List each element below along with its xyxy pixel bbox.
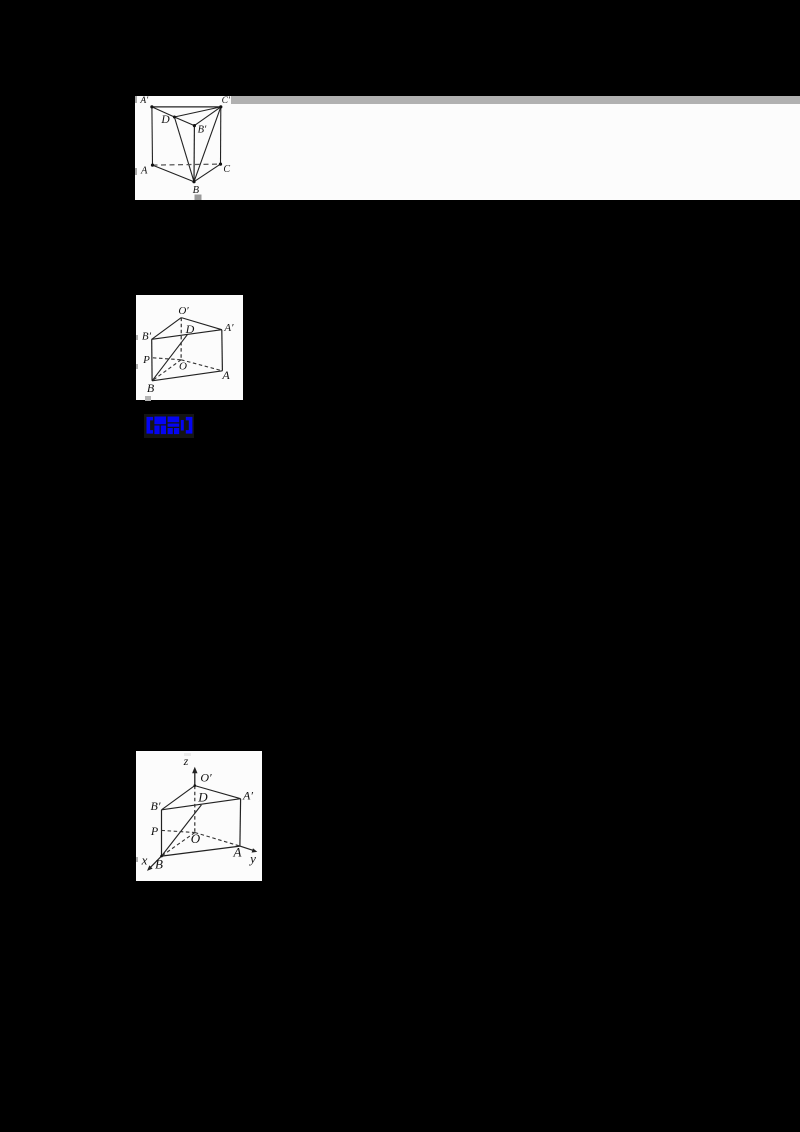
wire B-D xyxy=(162,805,202,856)
figure 1: triangular prism ABC-A'B'C' xyxy=(135,95,240,201)
wire A-C dashed xyxy=(153,164,221,165)
wire A'-A xyxy=(220,330,223,371)
wire B-B' xyxy=(193,126,195,182)
svg-text:P: P xyxy=(142,354,150,366)
svg-text:B: B xyxy=(193,185,200,196)
svg-text:x: x xyxy=(141,853,148,868)
wire B'-C' xyxy=(194,107,220,126)
node C' xyxy=(219,105,222,108)
wire B-A xyxy=(152,371,222,381)
svg-text:C′: C′ xyxy=(222,96,231,106)
wire P-O dashed xyxy=(162,830,195,832)
svg-text:A′: A′ xyxy=(223,322,234,334)
wire C-B xyxy=(194,164,221,182)
wire D-B xyxy=(174,117,194,182)
wire O'-O dashed xyxy=(180,318,182,360)
svg-text:B′: B′ xyxy=(198,125,207,136)
wire D-C' xyxy=(174,107,220,117)
wire B-D xyxy=(152,335,187,381)
wire C-C' xyxy=(220,107,222,164)
wire B'-A' xyxy=(162,799,241,810)
blue answer text xyxy=(146,416,194,437)
svg-text:D: D xyxy=(160,114,170,126)
wire B'-A' xyxy=(151,330,221,340)
artifact below B xyxy=(195,195,202,201)
answer tag backdrop xyxy=(144,414,194,438)
node A' xyxy=(150,105,153,108)
wire O'-A' xyxy=(195,786,241,799)
wire P-O dashed xyxy=(153,358,181,360)
svg-text:B′: B′ xyxy=(151,799,161,813)
node B xyxy=(192,180,195,183)
wire B'-O' xyxy=(162,786,195,810)
artifact tick left edge fig2 lower xyxy=(136,364,138,369)
svg-text:B′: B′ xyxy=(142,331,152,343)
white band row 1 xyxy=(135,96,800,200)
gray strip top of band xyxy=(231,96,800,104)
artifact tick left edge fig2 upper xyxy=(136,335,138,340)
x axis from B xyxy=(151,856,162,867)
svg-text:D: D xyxy=(197,790,208,805)
node B' xyxy=(193,124,196,127)
wire A-B xyxy=(153,165,195,182)
svg-text:A′: A′ xyxy=(139,96,149,106)
svg-text:A: A xyxy=(140,166,148,177)
artifact tick left edge fig3 xyxy=(136,857,138,862)
svg-text:A′: A′ xyxy=(242,789,253,803)
svg-text:A: A xyxy=(233,845,242,860)
figure 2: prism OBA-O'B'A' xyxy=(136,295,244,400)
z axis xyxy=(194,771,196,786)
svg-text:C: C xyxy=(223,164,230,175)
wire A-A' xyxy=(151,107,154,165)
artifact smudge fig3 above z xyxy=(184,753,191,757)
node C xyxy=(219,163,222,166)
node A xyxy=(151,164,154,167)
node D xyxy=(173,116,176,119)
wire B'-O' xyxy=(151,318,181,340)
node B xyxy=(160,855,163,858)
left bracket xyxy=(146,417,153,434)
svg-text:O′: O′ xyxy=(178,305,189,317)
wire O-B dashed xyxy=(162,833,195,857)
wire O-A dashed xyxy=(195,833,240,847)
artifact tick left edge fig1 bottom xyxy=(135,168,137,175)
wire O-B dashed xyxy=(152,360,181,381)
wire O-A dashed xyxy=(181,360,222,371)
wire C'-B xyxy=(194,107,221,182)
svg-text:O: O xyxy=(191,831,201,846)
wire A'-C' xyxy=(152,106,221,108)
figure 3: prism with axes xyxy=(136,751,262,881)
svg-text:B: B xyxy=(155,857,163,872)
glyph answer-2 xyxy=(167,417,179,435)
svg-text:A: A xyxy=(221,368,230,382)
artifact smudge fig2 below B xyxy=(145,396,151,401)
svg-text:O′: O′ xyxy=(200,771,212,785)
wire O'-A' xyxy=(181,318,222,330)
wire B'-B xyxy=(150,340,152,382)
wire O'-O dashed xyxy=(194,786,196,833)
artifact tick left edge fig1 top xyxy=(135,96,137,103)
y axis from A xyxy=(240,846,253,850)
glyph answer-1 xyxy=(154,417,166,435)
svg-text:D: D xyxy=(184,322,194,336)
svg-text:z: z xyxy=(183,754,189,768)
svg-text:B: B xyxy=(147,381,155,395)
svg-text:O: O xyxy=(179,361,187,373)
wire A'-A xyxy=(239,799,242,846)
svg-text:y: y xyxy=(248,851,256,866)
svg-text:P: P xyxy=(150,824,159,838)
node O' xyxy=(194,784,197,787)
wire B-A xyxy=(162,846,240,856)
wire A'-D-B' xyxy=(152,107,195,126)
right bracket xyxy=(185,417,192,434)
wire B'-B xyxy=(161,810,163,856)
